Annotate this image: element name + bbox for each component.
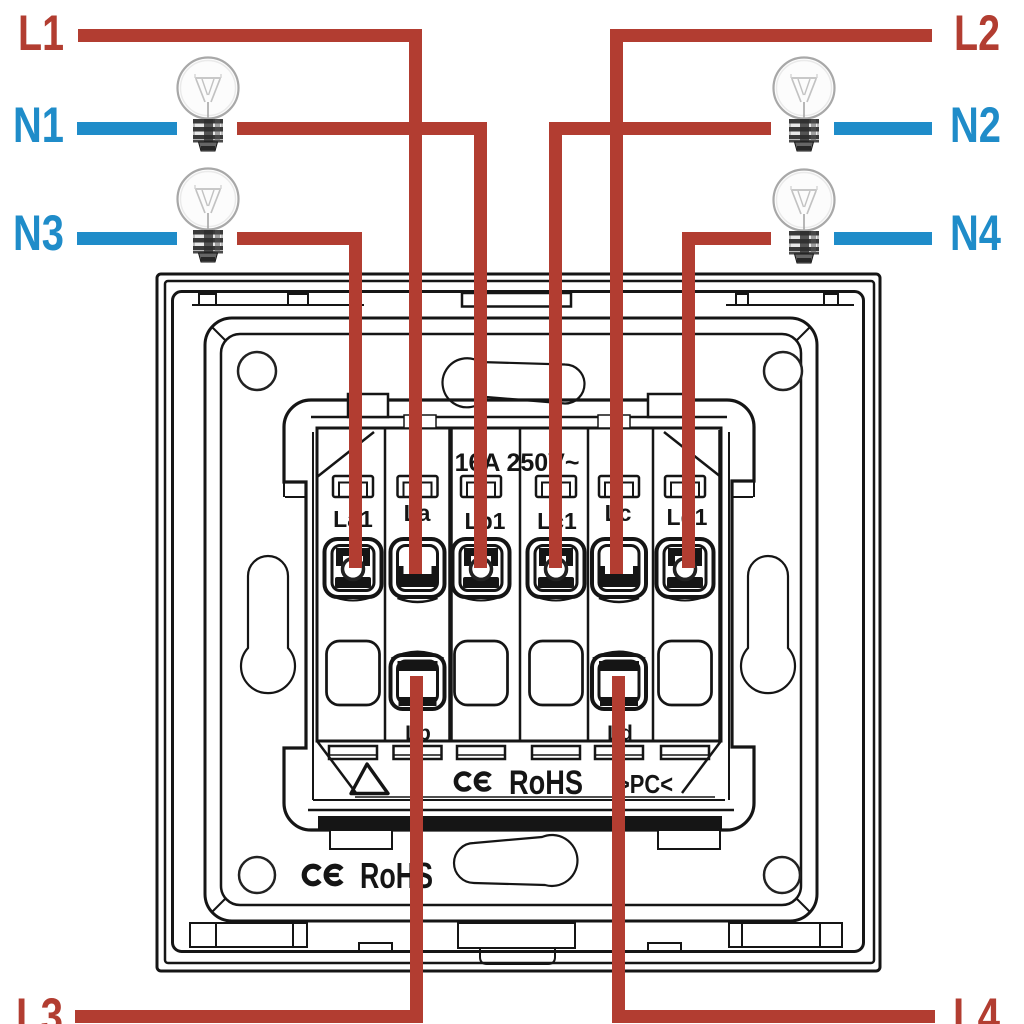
svg-text:L3: L3 [16, 988, 63, 1024]
svg-text:N3: N3 [13, 205, 64, 261]
svg-text:N2: N2 [950, 97, 1001, 153]
svg-text:N1: N1 [13, 97, 64, 153]
svg-text:L2: L2 [954, 5, 1000, 61]
svg-text:>PC<: >PC< [617, 769, 673, 799]
svg-text:N4: N4 [950, 205, 1001, 261]
svg-text:L1: L1 [18, 5, 64, 61]
svg-text:L4: L4 [953, 988, 1000, 1024]
